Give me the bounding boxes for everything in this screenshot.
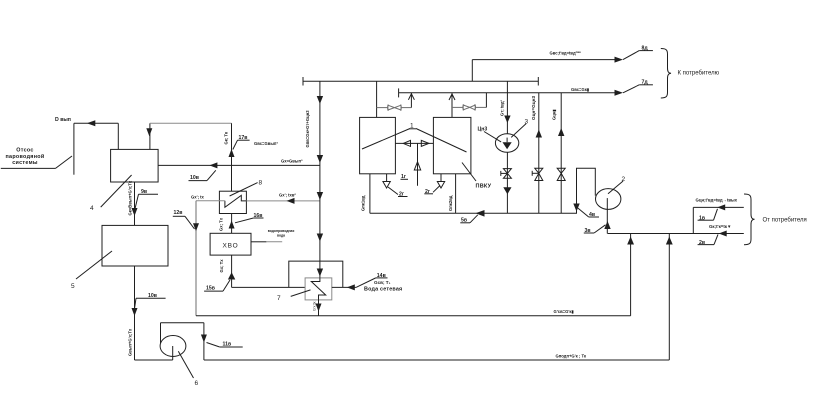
- wire main top header line: [303, 77, 538, 86]
- wire bypass line Gцн: [536, 93, 542, 214]
- label 10в lower: [134, 298, 166, 312]
- wire Цн3 down to 5в: [503, 152, 511, 213]
- svg-text:2: 2: [622, 176, 626, 183]
- drain right boiler: [424, 174, 444, 194]
- svg-text:2г: 2г: [399, 192, 405, 198]
- svg-text:системы: системы: [12, 160, 38, 166]
- node D вып vent line: [74, 120, 118, 174]
- wire main feed vertical Gпв: [317, 81, 323, 278]
- svg-text:5: 5: [71, 283, 75, 290]
- svg-text:7: 7: [277, 295, 281, 302]
- wire 5 down to bottom line: [132, 266, 670, 360]
- valve on Gцн line: [532, 168, 543, 180]
- boiler 1 right: [433, 117, 471, 173]
- pump 6: [160, 323, 207, 378]
- label 1в: [698, 209, 718, 220]
- svg-text:К потребителю: К потребителю: [678, 71, 720, 77]
- wire bottom line up to return: [666, 234, 673, 361]
- wire ХВО to HX7: [232, 286, 306, 288]
- heat exchanger 8: [219, 183, 257, 214]
- svg-text:Gх'; tхв°: Gх'; tхв°: [279, 193, 296, 198]
- heat exchanger 7: [291, 278, 332, 300]
- label 9в: [135, 194, 158, 209]
- wire left boiler feed from main: [376, 81, 378, 117]
- svg-text:Gцн=Gцн3: Gцн=Gцн3: [531, 96, 536, 120]
- svg-text:ПВКУ: ПВКУ: [476, 183, 492, 189]
- label ПВКУ: [462, 163, 476, 182]
- svg-text:Gпв=Gк+Gт+Gцн3: Gпв=Gк+Gт+Gцн3: [305, 110, 310, 148]
- svg-text:ХВО: ХВО: [223, 243, 239, 250]
- svg-text:4в: 4в: [589, 212, 595, 218]
- svg-text:Gк; Tк: Gк; Tк: [224, 131, 229, 144]
- wire city water into ХВО: [251, 241, 282, 243]
- wire inter-boiler crossover: [395, 140, 433, 185]
- wire condensate line from 4 to main riser: [158, 162, 320, 168]
- svg-text:Gк;t'к=tк▼: Gк;t'к=tк▼: [709, 224, 731, 229]
- wire П loop to pump 2: [573, 168, 595, 213]
- svg-text:водопроводная: водопроводная: [268, 229, 295, 233]
- water treatment XBO: [210, 233, 251, 255]
- wire boiler blowdown left: [369, 174, 371, 214]
- svg-text:8: 8: [259, 180, 263, 187]
- valve on Цн3 line: [501, 169, 512, 179]
- wire heated water out of 8: [246, 198, 320, 204]
- label 4в: [578, 208, 599, 217]
- svg-text:14в: 14в: [377, 273, 386, 279]
- wire 8 to ХВО: [229, 214, 235, 234]
- svg-text:Gх; Tх: Gх; Tх: [219, 217, 224, 231]
- svg-text:3: 3: [525, 119, 529, 126]
- wire second bypass Gцн: [558, 93, 564, 214]
- pump Цн3 column: [504, 81, 510, 134]
- svg-text:7д: 7д: [642, 80, 649, 86]
- label 12в: [173, 216, 195, 229]
- wire pump 2 suction: [604, 209, 610, 233]
- label 1г: [401, 178, 409, 180]
- svg-text:Gх=Gвып°: Gх=Gвып°: [281, 159, 303, 164]
- wire second collector line (7д): [399, 88, 617, 97]
- wire 4 to 5: [132, 182, 138, 225]
- valve left boiler outlet: [377, 105, 412, 111]
- svg-text:16в: 16в: [254, 213, 263, 219]
- label 17в: [233, 140, 250, 149]
- deaerator 5: [76, 225, 168, 279]
- svg-text:От потребителя: От потребителя: [763, 218, 807, 224]
- svg-text:D вып: D вып: [55, 117, 71, 123]
- wire riser Gк to vent line: [229, 123, 235, 191]
- svg-text:12в: 12в: [174, 210, 183, 216]
- svg-text:3в: 3в: [585, 228, 591, 234]
- label Отсос пароводяной системы: [1, 148, 72, 169]
- wire line 5в: [370, 210, 577, 217]
- arrow return from consumer lower: [719, 231, 727, 237]
- pump Цн3: [484, 124, 526, 153]
- pump 2: [596, 181, 624, 209]
- svg-text:G'х;tх: G'х;tх: [313, 301, 317, 311]
- wire bypass around 7: [289, 261, 343, 287]
- svg-text:Gх'; tх: Gх'; tх: [191, 195, 205, 200]
- svg-text:Отсос: Отсос: [16, 148, 33, 154]
- svg-text:8д: 8д: [642, 45, 649, 51]
- label 3в: [584, 225, 606, 233]
- arrow 7д to consumer: [615, 85, 653, 96]
- wire return main line: [608, 233, 744, 235]
- svg-text:Gт; tвд°: Gт; tвд°: [500, 100, 505, 116]
- svg-text:2г: 2г: [425, 189, 431, 195]
- svg-text:2в: 2в: [699, 240, 705, 246]
- wire left valve riser: [408, 93, 414, 108]
- boiler 1 left: [360, 117, 396, 173]
- wire HX7 outlet down: [316, 300, 322, 316]
- label 16в: [235, 218, 264, 223]
- valve right boiler outlet: [452, 104, 486, 110]
- svg-text:Gпк2вд: Gпк2вд: [448, 195, 453, 211]
- wire network water inlet 14в: [332, 278, 388, 291]
- valve on second bypass: [557, 168, 565, 180]
- evaporator 4: [101, 149, 158, 207]
- label 10в upper: [189, 170, 216, 180]
- svg-text:G'св=G'к▮: G'св=G'к▮: [554, 309, 574, 314]
- svg-text:пароводяной: пароводяной: [5, 153, 44, 160]
- wire boiler blowdown right: [455, 174, 457, 214]
- svg-text:Вода сетевая: Вода сетевая: [364, 287, 402, 293]
- svg-text:Gподп+G'к ; Tк: Gподп+G'к ; Tк: [556, 354, 588, 359]
- svg-text:Gк=Bвып+G'х;Tк: Gк=Bвып+G'х;Tк: [128, 180, 133, 215]
- svg-text:1в: 1в: [699, 216, 705, 222]
- svg-text:9в: 9в: [141, 189, 147, 195]
- svg-text:Gвс=Gвып°: Gвс=Gвып°: [254, 141, 278, 146]
- svg-text:Gвс=Gк▮: Gвс=Gк▮: [571, 87, 589, 92]
- wire ХВО down to line: [228, 255, 235, 287]
- wire long makeup line to return: [196, 234, 634, 316]
- label 5в: [460, 215, 478, 223]
- wire riser to consumer supply line: [472, 60, 616, 82]
- arrow 8д supply to consumer: [615, 51, 653, 63]
- svg-text:10в: 10в: [148, 293, 157, 299]
- svg-text:5в: 5в: [461, 218, 467, 224]
- brace от потребителя: [744, 194, 755, 245]
- svg-text:Gсв; T₁: Gсв; T₁: [374, 280, 391, 285]
- label 15в: [204, 280, 230, 291]
- svg-text:11в: 11в: [223, 342, 232, 348]
- svg-text:Gпк1вд: Gпк1вд: [361, 195, 366, 211]
- svg-text:Gцн▮: Gцн▮: [552, 109, 557, 120]
- svg-text:4: 4: [90, 205, 94, 212]
- drain left boiler: [383, 174, 408, 197]
- wire vent return into 4: [146, 123, 231, 149]
- wire upper return from consumer: [693, 204, 744, 233]
- svg-text:Gцн;t'вд=tвд→tвых: Gцн;t'вд=tвд→tвых: [696, 198, 738, 203]
- brace к потребителю: [661, 49, 671, 99]
- label 11в: [207, 343, 243, 348]
- wire right valve riser: [485, 93, 487, 108]
- wire makeup water inlet Gх: [193, 201, 225, 316]
- svg-text:Цн3: Цн3: [478, 126, 488, 132]
- svg-text:1г: 1г: [401, 174, 407, 180]
- svg-text:Gх; Tх: Gх; Tх: [219, 259, 224, 273]
- svg-text:15в: 15в: [206, 286, 215, 292]
- svg-text:Gвып+G'х;Tх: Gвып+G'х;Tх: [128, 328, 133, 356]
- label 2в: [698, 234, 718, 244]
- svg-text:вода: вода: [277, 234, 285, 238]
- svg-text:10в: 10в: [190, 175, 199, 181]
- svg-text:6: 6: [195, 380, 199, 387]
- wire right boiler feed: [449, 93, 455, 118]
- label водопроводная вода: [268, 229, 295, 238]
- label 1: [362, 123, 467, 153]
- svg-text:17в: 17в: [239, 135, 248, 141]
